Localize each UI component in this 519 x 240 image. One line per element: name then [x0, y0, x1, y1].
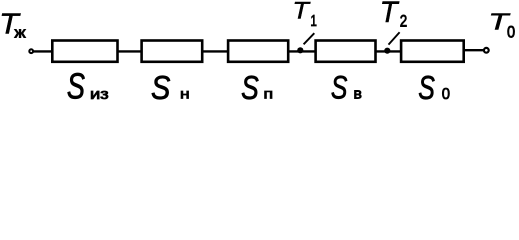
node T1 junction dot	[297, 47, 303, 53]
label S_0	[418, 69, 450, 107]
svg-text:из: из	[90, 87, 109, 103]
label Tж	[0, 8, 26, 41]
node T2 junction dot	[384, 48, 390, 54]
left terminal of node Tж (open circle)	[29, 49, 33, 53]
wire from block S_0 to right terminal	[464, 49, 484, 51]
wire between blocks S_в and S_0 through node T2	[376, 50, 403, 52]
svg-text:в: в	[353, 86, 361, 103]
right terminal of node T0 (open circle)	[484, 48, 489, 53]
svg-text:T: T	[380, 0, 400, 29]
label T0	[488, 9, 515, 41]
svg-text:0: 0	[507, 24, 515, 42]
node T2 tap slash	[389, 32, 400, 44]
block S_н (rectangle)	[142, 41, 203, 62]
wire from left terminal to block S_из	[34, 50, 54, 52]
svg-text:T: T	[292, 0, 311, 24]
label S_из	[67, 66, 109, 107]
label S_н	[151, 69, 190, 107]
svg-text:S: S	[67, 66, 85, 106]
wire between blocks S_н and S_п	[203, 50, 230, 52]
block S_из (rectangle)	[52, 41, 117, 62]
svg-text:S: S	[418, 69, 435, 106]
block S_0 (rectangle)	[401, 41, 464, 62]
svg-text:п: п	[263, 87, 273, 101]
svg-text:2: 2	[400, 12, 407, 31]
block S_п (rectangle)	[228, 41, 288, 62]
wire between blocks S_из and S_н	[118, 50, 142, 52]
svg-text:н: н	[180, 87, 190, 102]
label S_п	[241, 70, 273, 107]
svg-text:1: 1	[310, 13, 317, 30]
label S_в	[331, 70, 362, 106]
label T2	[380, 0, 408, 31]
svg-text:S: S	[241, 70, 259, 106]
label T1	[292, 0, 317, 29]
svg-text:S: S	[331, 70, 348, 106]
node T1 tap slash	[304, 33, 315, 44]
wire between blocks S_п and S_в through node T1	[289, 50, 317, 52]
svg-text:S: S	[151, 69, 170, 106]
svg-text:0: 0	[442, 86, 451, 104]
block S_в (rectangle)	[316, 41, 376, 62]
svg-text:ж: ж	[15, 25, 26, 41]
